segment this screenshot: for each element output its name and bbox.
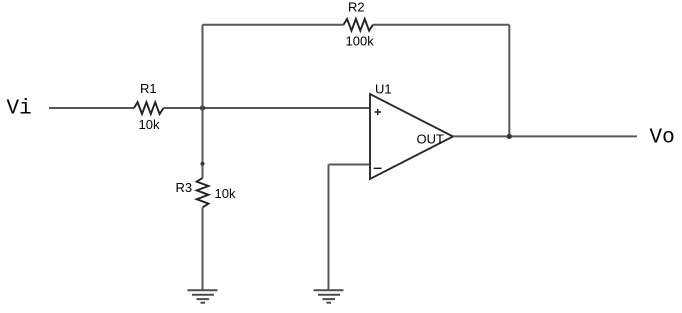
- svg-text:R2: R2: [348, 0, 365, 14]
- wire feedback vertical right: [508, 25, 510, 137]
- svg-text:10k: 10k: [215, 186, 236, 201]
- wire output: [453, 135, 637, 137]
- node small junction above R3: [201, 162, 205, 166]
- op-amp U1 triangle: [370, 94, 453, 179]
- wire minus input horizontal: [329, 164, 371, 166]
- resistor R1: [134, 102, 164, 114]
- ground (under R3): [188, 290, 218, 303]
- svg-text:U1: U1: [375, 82, 392, 97]
- svg-text:OUT: OUT: [417, 131, 445, 146]
- wire feedback vertical left: [202, 25, 204, 108]
- resistor R2: [344, 19, 374, 31]
- wire from junction down to R3: [202, 108, 204, 178]
- wire R3 to ground: [202, 208, 204, 291]
- svg-text:R3: R3: [176, 180, 193, 195]
- wire R1 to op-amp + input: [164, 107, 371, 109]
- wire top left horizontal: [203, 24, 344, 26]
- wire minus net vertical: [328, 165, 330, 291]
- pin + symbol: [375, 109, 382, 115]
- resistor R3: [197, 178, 209, 208]
- node junction at R1/feedback: [200, 105, 205, 110]
- node junction output/feedback: [507, 134, 512, 139]
- wire Vi lead: [49, 107, 134, 109]
- svg-text:Vi: Vi: [7, 98, 32, 121]
- svg-text:R1: R1: [140, 81, 157, 96]
- svg-text:10k: 10k: [139, 117, 160, 132]
- wire top right horizontal: [373, 24, 509, 26]
- pin - symbol: [374, 167, 382, 169]
- svg-text:Vo: Vo: [650, 127, 675, 150]
- svg-text:100k: 100k: [346, 33, 375, 48]
- ground (minus input): [314, 290, 344, 303]
